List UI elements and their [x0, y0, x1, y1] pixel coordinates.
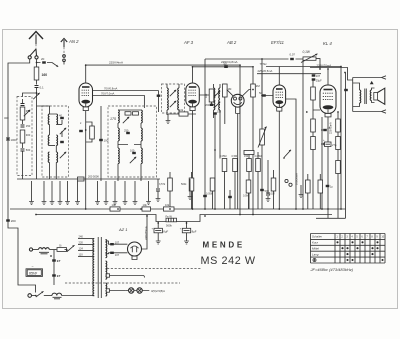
svg-text:107: 107 [115, 253, 120, 257]
taps 240 [78, 238, 93, 240]
wire heater lead [106, 290, 126, 292]
svg-text:8µF: 8µF [163, 230, 168, 234]
svg-text:200: 200 [11, 219, 16, 223]
taps 124 [78, 250, 93, 252]
speaker box [353, 78, 382, 112]
capacitor 150 [22, 120, 24, 124]
socket gram 1 [285, 179, 288, 182]
wire AZ1 out [142, 215, 148, 250]
capacitor 25uF [312, 78, 316, 80]
resistor row r3 [247, 159, 252, 172]
resistor rr4 [336, 137, 341, 150]
coil osc L9 [141, 110, 142, 123]
capacitor 100 pad [99, 139, 103, 141]
coil IFT2 sec2 [219, 100, 220, 110]
wire AF coupling rail [205, 59, 303, 129]
resistor r6 [246, 180, 251, 193]
svg-text:65W: 65W [29, 270, 38, 275]
svg-text:1000: 1000 [11, 138, 18, 142]
antenna main [29, 32, 43, 56]
plug voltage selector [29, 248, 32, 251]
resistor 10k bus c [110, 207, 120, 211]
trimmer arrow B2 [130, 157, 136, 163]
resistor r5 [210, 178, 215, 191]
svg-text:10k: 10k [179, 108, 184, 112]
wire AVC rail [17, 178, 160, 180]
svg-text:4(5)V/4(5)A: 4(5)V/4(5)A [151, 289, 165, 293]
capacitor osc coupling [157, 95, 161, 97]
svg-text:0,1: 0,1 [40, 86, 45, 90]
svg-text:ET: ET [57, 274, 61, 278]
wire rail 220V [310, 68, 353, 81]
resistor row r4 [256, 159, 261, 172]
wire rail 797 [266, 66, 341, 68]
switch gram [284, 150, 291, 158]
svg-text:Mittel: Mittel [312, 247, 319, 251]
wire v253 [252, 97, 254, 215]
svg-text:JF=468kc (473/483kHz): JF=468kc (473/483kHz) [310, 267, 354, 272]
wire V4 screen [286, 99, 296, 209]
capacitor 500 [260, 189, 264, 191]
chassis dashed b [65, 282, 180, 284]
ground comb [31, 181, 33, 199]
tube V2 AF3 [186, 83, 200, 111]
resistor 385 [20, 107, 25, 120]
svg-text:10k: 10k [112, 203, 117, 207]
transformer sec top [106, 240, 107, 258]
svg-text:50: 50 [224, 62, 228, 66]
capacitor 0.07 b [110, 252, 114, 254]
socket gram 2 [289, 183, 292, 186]
coil antenna L1 [48, 114, 49, 124]
svg-text:Lang: Lang [312, 253, 319, 257]
resistor rr2 [311, 137, 316, 150]
capacitor 500 trap [22, 143, 24, 148]
svg-text:2M: 2M [256, 84, 261, 88]
potentiometer volume [260, 129, 265, 145]
svg-text:0,07: 0,07 [290, 52, 296, 56]
wire coil links [50, 114, 63, 179]
speaker [374, 93, 378, 101]
wire V1 anode [86, 65, 240, 214]
bus chassis [10, 112, 346, 219]
svg-text:EF7/11: EF7/11 [271, 40, 284, 45]
ground comb [114, 181, 116, 199]
switch table [311, 234, 386, 264]
wire v205 [204, 112, 206, 209]
coil sec L3 [56, 114, 57, 124]
capacitor 0.1 [36, 80, 38, 85]
wire v322 [321, 117, 323, 209]
wire IFT1 [167, 84, 179, 115]
svg-text:20: 20 [41, 57, 45, 61]
ground comb [59, 181, 61, 199]
resistor 10k bus b [164, 207, 175, 211]
capacitor 0.07 [290, 58, 294, 60]
coil sec L4 [56, 135, 57, 145]
svg-text:3,57k: 3,57k [159, 183, 166, 186]
plug bottom [382, 110, 387, 113]
capacitor 100 osc [132, 152, 136, 154]
ground comb [148, 181, 150, 199]
transformer sec mid [106, 261, 107, 279]
resistor 1M [223, 84, 228, 97]
svg-text:200: 200 [205, 103, 210, 107]
capacitor c45b [323, 143, 327, 145]
plug top [382, 76, 387, 79]
wire V5 anode [327, 69, 329, 85]
capacitor 1000 [6, 138, 10, 140]
resistor 5k det [244, 151, 254, 155]
svg-text:124: 124 [79, 247, 84, 251]
svg-text:AZ 1: AZ 1 [118, 227, 127, 232]
resistor row r2 [233, 159, 238, 172]
wire V3 diode leads [227, 90, 253, 97]
trimmer arrow IFT1a [170, 90, 176, 96]
capacitor ET2 [52, 274, 56, 276]
svg-text:AF 3: AF 3 [183, 40, 194, 45]
capacitor 0.07 a [110, 243, 114, 245]
choke field FeW [166, 218, 177, 222]
resistor 300 [20, 130, 25, 143]
svg-text:25µF: 25µF [316, 78, 322, 82]
svg-text:150: 150 [244, 155, 249, 158]
wire grid leak rail [168, 113, 196, 115]
svg-text:Si: Si [59, 244, 62, 248]
wire earth bus left [8, 59, 36, 293]
resistor row r1 [222, 159, 227, 172]
coil IFT2 sec [219, 88, 220, 98]
svg-text:1µ: 1µ [330, 185, 333, 189]
capacitor 200 V2 [211, 102, 213, 106]
ground g6 [157, 179, 159, 188]
resistor rr6 [306, 180, 311, 193]
wire V2 cathode [192, 111, 194, 209]
svg-text:300: 300 [26, 133, 31, 137]
svg-text:107: 107 [316, 74, 321, 78]
potentiometer 0.1W [303, 57, 316, 60]
resistor r8 [168, 178, 173, 191]
wire prim taps [93, 239, 95, 296]
svg-text:110: 110 [79, 253, 84, 257]
oscillator coil box [108, 106, 157, 177]
svg-text:Kurz: Kurz [312, 241, 318, 245]
svg-text:0,05M: 0,05M [206, 193, 213, 196]
svg-text:500: 500 [26, 148, 31, 152]
wire V1 screen [93, 91, 159, 113]
trimmer arrow IFT2a [214, 91, 220, 97]
wire AZ1 fil [132, 255, 137, 259]
capacitor cathode V1 [79, 130, 83, 132]
resistor r9 [189, 178, 194, 191]
svg-text:MENDE: MENDE [203, 241, 245, 250]
ground comb [134, 181, 136, 199]
coil sec L5 [56, 152, 57, 162]
svg-text:Schalter: Schalter [312, 235, 322, 239]
capacitor speaker feed [344, 89, 348, 91]
taps 110 [78, 256, 93, 258]
wire V4 cathode [278, 111, 280, 209]
capacitor 50 grid [262, 94, 266, 96]
taps 220 [78, 244, 93, 246]
svg-text:225V/0,5mA: 225V/0,5mA [258, 69, 273, 73]
coil IFT1 sec [178, 88, 179, 98]
svg-text:100: 100 [130, 149, 135, 153]
svg-text:150: 150 [26, 124, 31, 128]
svg-text:560k: 560k [166, 223, 172, 227]
wire V5 cathode [327, 117, 329, 218]
capacitor 150 [213, 112, 217, 114]
resistor 160 [36, 63, 38, 68]
svg-text:MS 242 W: MS 242 W [201, 255, 256, 267]
svg-text:160: 160 [42, 73, 48, 77]
svg-text:10k: 10k [165, 203, 170, 207]
antenna plug left [28, 56, 31, 59]
coil IFT2 prim2 [214, 100, 215, 110]
capacitor det [203, 195, 207, 197]
wire v222 [220, 112, 225, 159]
trimmer arrow A2 [60, 152, 66, 158]
ground g4 [167, 114, 169, 118]
svg-text:0,5M: 0,5M [243, 195, 249, 198]
resistor r7 [271, 178, 276, 191]
antenna plug right [35, 56, 38, 59]
svg-text:100: 100 [104, 139, 109, 143]
trimmer arrow A1 [60, 128, 66, 134]
ground g5 [189, 179, 191, 194]
tube V4 EF7 [273, 85, 286, 111]
svg-text:220V/70mA: 220V/70mA [317, 64, 332, 68]
capacitor ET1 [52, 259, 56, 261]
fuse Si [57, 248, 67, 252]
arrow hum [370, 81, 374, 84]
svg-text:70V/7,0mA: 70V/7,0mA [101, 92, 115, 96]
wire speaker feed [341, 67, 346, 210]
wire pad cap [100, 106, 102, 181]
svg-text:200 500K: 200 500K [88, 175, 99, 179]
resistor 2M [251, 84, 256, 97]
IF transformer 1 [162, 84, 185, 113]
antenna AN2 spare [61, 38, 67, 54]
svg-text:AN 2: AN 2 [68, 39, 79, 44]
capacitor 200 earth [6, 219, 10, 221]
coil osc L6 [118, 110, 119, 123]
svg-text:ET: ET [57, 259, 61, 263]
resistor cathode V1 [90, 126, 95, 139]
trimmer arrow IFT1b [170, 101, 176, 107]
tube V5 KL4 [320, 85, 336, 117]
coil IFT2 prim [214, 88, 215, 98]
transformer core [98, 237, 101, 298]
choke suppressor [52, 293, 62, 295]
svg-text:220: 220 [79, 241, 84, 245]
svg-text:500k: 500k [181, 183, 187, 186]
coil antenna L1c [48, 152, 49, 162]
svg-text:385: 385 [26, 109, 31, 113]
svg-text:797kc: 797kc [260, 62, 268, 66]
resistor rr1 [311, 119, 316, 132]
bus B+ [36, 215, 332, 222]
wire osc links [118, 110, 141, 177]
ground comb [105, 181, 107, 199]
capacitor 20 [42, 61, 46, 63]
switch voltage selector [67, 245, 75, 252]
coil osc L11 [141, 148, 142, 164]
wire V1 cathode [85, 111, 87, 209]
svg-text:70V/0,8mA: 70V/0,8mA [104, 87, 118, 91]
wire row r stubs [225, 152, 259, 209]
capacitor 45 [323, 129, 327, 131]
ground gr8 [300, 185, 302, 192]
svg-text:0,1W: 0,1W [303, 50, 311, 54]
resistor AVC series [78, 177, 85, 181]
svg-text:KL 4: KL 4 [323, 41, 332, 46]
ground comb [67, 181, 69, 199]
capacitor 27uF electrolytic [325, 142, 332, 147]
svg-text:225V/2mA: 225V/2mA [330, 122, 333, 134]
svg-text:100/50mA: 100/50mA [295, 173, 299, 185]
ground comb [97, 181, 99, 199]
svg-text:8µF: 8µF [192, 230, 197, 234]
tube V3 AB2 [231, 94, 244, 107]
svg-text:175: 175 [110, 117, 116, 121]
ground comb [77, 181, 79, 199]
svg-text:~: ~ [32, 265, 34, 269]
wire cap rail [158, 222, 186, 229]
capacitor 5 coil [60, 141, 64, 143]
tube V1 AF3 [79, 83, 93, 111]
resistor 10k grid [179, 112, 188, 116]
lamp pilot 1 [129, 288, 134, 293]
chassis dashed a [107, 268, 202, 270]
padder trimmers [125, 112, 131, 115]
coil osc L8 [118, 148, 119, 164]
ground comb [43, 181, 45, 199]
resistor 10k bus a [142, 207, 151, 211]
ground comb [124, 181, 126, 199]
wire rect anode b [106, 252, 128, 255]
wire sec mid lead [106, 275, 144, 277]
ground g7 [267, 160, 269, 194]
wire trap to bus [23, 93, 37, 179]
wire box A top [37, 106, 50, 179]
coil IFT1 prim2 [167, 100, 168, 110]
svg-text:AB 2: AB 2 [226, 40, 237, 45]
svg-text:225V/4mA: 225V/4mA [109, 61, 123, 65]
resistor rr3 [336, 119, 341, 132]
wire antenna input [37, 59, 53, 63]
transformer primary [93, 239, 94, 296]
svg-text:Fe W: Fe W [166, 214, 173, 218]
coil antenna L1b [48, 135, 49, 145]
capacitor 107 [312, 74, 316, 76]
trimmer arrow B1 [123, 117, 129, 123]
antenna coil box [42, 106, 69, 177]
wire v215 [214, 114, 216, 210]
wire V4 anode [278, 67, 280, 86]
svg-text:0,5M: 0,5M [232, 155, 238, 158]
wire rail 225V [257, 73, 321, 75]
svg-text:0,05M: 0,05M [220, 155, 227, 158]
lamp pilot 2 [137, 288, 142, 293]
choke mains [39, 248, 50, 250]
wire rect anode a [106, 241, 128, 244]
coil IFT1 sec2 [178, 100, 179, 110]
capacitor 5000 [228, 196, 232, 198]
wire V2 anode [193, 67, 254, 84]
svg-text:10k: 10k [143, 203, 148, 207]
transformer sec heater [106, 283, 107, 296]
ground comb [51, 181, 53, 199]
resistor grid KL4 [311, 87, 316, 100]
trimmer arrow trap [24, 110, 30, 116]
svg-text:150: 150 [217, 110, 222, 114]
wire v303 [302, 60, 304, 209]
wave trap box [17, 97, 32, 176]
output transformer [360, 90, 361, 103]
svg-text:500: 500 [265, 189, 270, 193]
switch arrow antenna [52, 63, 58, 67]
svg-text:320: 320 [4, 116, 9, 120]
capacitor 8uF a [154, 228, 162, 233]
capacitor 250 osc [126, 132, 130, 134]
trimmer arrow input [33, 93, 39, 99]
capacitor 0.1 trap [22, 99, 24, 103]
wire V3 legs [236, 107, 240, 209]
svg-text:107: 107 [115, 240, 120, 244]
capacitor 40 coil [60, 117, 64, 119]
resistor rr5 [336, 161, 341, 174]
switch mains [36, 291, 44, 297]
resistor rr7 [318, 180, 323, 193]
coil IFT1 prim [167, 88, 168, 98]
coil osc L10 [141, 128, 142, 141]
resistor 110 [199, 89, 211, 95]
capacitor 8uF b [182, 228, 190, 233]
mains plug [28, 294, 32, 298]
trimmer arrow IFT2b [214, 102, 220, 108]
coil osc L7 [118, 128, 119, 141]
svg-text:250: 250 [124, 129, 129, 133]
wire osc stubs [118, 177, 141, 181]
svg-text:27µ: 27µ [332, 143, 337, 147]
capacitor 1uF [326, 185, 330, 187]
capacitor 50 [224, 66, 228, 68]
svg-text:240: 240 [79, 235, 84, 239]
